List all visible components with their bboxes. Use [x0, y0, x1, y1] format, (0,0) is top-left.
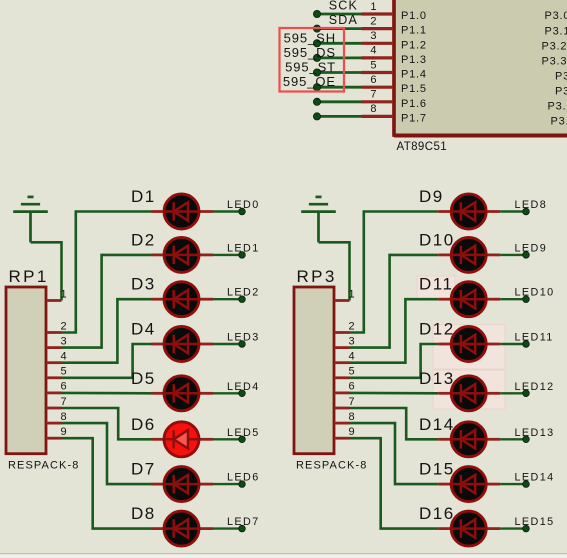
wire RP pin 8 to LED row 7 [62, 423, 152, 484]
junction dot net LED6 [239, 481, 246, 488]
LED D12 right pin stub [486, 343, 501, 346]
LED D14 right pin stub [486, 438, 501, 441]
svg-text:RP1: RP1 [9, 267, 49, 286]
junction dot pin 6 wire [313, 84, 320, 91]
wire D5 to net label LED4 [213, 392, 242, 394]
svg-text:D13: D13 [419, 369, 455, 388]
LED D7 body [164, 467, 199, 502]
wire D3 to net label LED2 [213, 298, 242, 300]
wire RP pin 4 to LED row 3 [62, 299, 152, 363]
microcontroller U1 AT89C51 body [392, 0, 567, 137]
LED D5 left pin stub [151, 392, 165, 395]
wire RP pin 9 to LED row 8 [62, 438, 152, 528]
U1 pin 7 stub (P1.6) [362, 100, 393, 103]
U1 pin 6 stub (P1.5) [362, 86, 393, 89]
svg-text:D7: D7 [131, 460, 156, 479]
LED D1 body [164, 194, 199, 229]
svg-text:LED12: LED12 [515, 381, 555, 393]
U1 pin 2 stub (P1.1) [362, 27, 393, 30]
svg-text:6: 6 [349, 381, 355, 393]
svg-text:D6: D6 [131, 415, 156, 434]
LED D9 left pin stub [438, 210, 452, 213]
svg-text:D3: D3 [131, 275, 156, 294]
LED D8 left pin stub [151, 527, 165, 530]
svg-text:P3.4/T0: P3.4/T0 [555, 70, 567, 82]
svg-text:P1.5: P1.5 [401, 83, 427, 95]
wire RP pin 6 to LED row 5 [350, 392, 439, 395]
LED D5 right pin stub [199, 392, 214, 395]
LED D12 left pin stub [438, 343, 452, 346]
wire D16 to net label LED15 [500, 527, 526, 529]
svg-text:D14: D14 [419, 415, 455, 434]
svg-text:LED10: LED10 [515, 287, 555, 299]
wire RP pin 2 to LED row 1 [350, 212, 439, 333]
U1 pin 3 stub (P1.2) [362, 42, 393, 45]
LED D6 body [164, 422, 199, 457]
svg-text:595_OE: 595_OE [283, 74, 336, 89]
wire RP pin 8 to LED row 7 [350, 423, 439, 484]
svg-text:D2: D2 [131, 230, 156, 249]
U1 pin 5 stub (P1.4) [362, 71, 393, 74]
LED D10 body [451, 237, 486, 272]
RP1 pin 4 stub [46, 361, 62, 364]
RP1 pin 5 stub [46, 376, 62, 379]
wire D11 to net label LED10 [500, 298, 526, 300]
junction dot pin 1 wire [313, 10, 320, 17]
junction dot net LED7 [239, 525, 246, 532]
svg-text:2: 2 [61, 320, 67, 332]
svg-text:P3.0/RXD: P3.0/RXD [545, 10, 567, 22]
svg-text:7: 7 [61, 396, 67, 408]
LED D11 body [451, 282, 486, 317]
junction dot pin 7 wire [313, 98, 320, 105]
LED D15 left pin stub [438, 483, 452, 486]
resistor pack RP3 body [294, 287, 334, 454]
svg-text:LED2: LED2 [227, 287, 260, 299]
LED D11 left pin stub [438, 298, 452, 301]
svg-text:P1.1: P1.1 [401, 25, 427, 37]
wire to U1 pin 2 [317, 27, 362, 30]
junction dot net LED1 [239, 252, 246, 259]
svg-text:LED5: LED5 [227, 427, 260, 439]
LED D15 right pin stub [486, 483, 501, 486]
wire RP pin 5 to LED row 4 [62, 344, 152, 378]
wire D1 to net label LED0 [213, 210, 242, 212]
svg-text:D12: D12 [419, 320, 455, 339]
RP3 pin 3 stub [334, 346, 350, 349]
RP3 pin 6 stub [334, 391, 350, 394]
wire D2 to net label LED1 [213, 254, 242, 256]
wire to U1 pin 8 [317, 115, 362, 118]
svg-text:2: 2 [349, 320, 355, 332]
svg-text:595_ST: 595_ST [285, 60, 336, 75]
svg-text:LED9: LED9 [515, 242, 548, 254]
junction dot net LED2 [239, 296, 246, 303]
ground symbol (right) [301, 197, 336, 242]
red selection box around 595_ labels [280, 28, 345, 92]
svg-text:595_SH: 595_SH [284, 30, 336, 45]
junction dot pin 2 wire [313, 25, 320, 32]
svg-text:5: 5 [61, 366, 67, 378]
svg-text:P3.6/WR: P3.6/WR [548, 101, 567, 113]
svg-text:LED1: LED1 [227, 242, 260, 254]
svg-text:9: 9 [349, 426, 355, 438]
svg-text:6: 6 [370, 74, 376, 86]
LED D1 left pin stub [151, 210, 165, 213]
LED D12 body [451, 327, 486, 362]
svg-text:5: 5 [349, 366, 355, 378]
LED D3 left pin stub [151, 298, 165, 301]
wire D4 to net label LED3 [213, 343, 242, 345]
LED D2 right pin stub [199, 253, 214, 256]
svg-text:SCK: SCK [329, 0, 358, 13]
RP3 pin 8 stub [334, 422, 350, 425]
junction dot pin 5 wire [313, 69, 320, 76]
junction dot net LED5 [239, 436, 246, 443]
RP1 pin 7 stub [46, 407, 62, 410]
RP1 pin 9 stub [46, 437, 62, 440]
junction dot net LED8 [523, 208, 530, 215]
resistor pack RP1 body [6, 287, 46, 454]
svg-text:7: 7 [370, 89, 376, 101]
LED D13 left pin stub [438, 392, 452, 395]
wire D6 to net label LED5 [213, 438, 242, 440]
wire D7 to net label LED6 [213, 483, 242, 485]
LED D13 body [451, 376, 486, 411]
RP3 pin 4 stub [334, 361, 350, 364]
LED D9 right pin stub [486, 210, 501, 213]
svg-text:8: 8 [349, 411, 355, 423]
svg-text:LED0: LED0 [227, 199, 260, 211]
wire ground to RP3 pin 1 [319, 242, 350, 300]
LED D4 right pin stub [199, 343, 214, 346]
wire to U1 pin 5 [317, 71, 362, 74]
LED D15 body [451, 467, 486, 502]
RP1 pin 1 stub [46, 299, 62, 302]
LED D1 right pin stub [199, 210, 214, 213]
selection highlight box behind D11 label [417, 276, 455, 299]
RP1 pin 6 stub [46, 391, 62, 394]
wire to U1 pin 7 [317, 100, 362, 103]
RP1 pin 3 stub [46, 346, 62, 349]
LED D3 right pin stub [199, 298, 214, 301]
RP1 pin 8 stub [46, 422, 62, 425]
RP3 pin 2 stub [334, 331, 350, 334]
svg-text:P3.1/TXD: P3.1/TXD [545, 25, 567, 37]
svg-text:LED8: LED8 [515, 199, 548, 211]
svg-text:2: 2 [370, 15, 376, 27]
svg-text:595_DS: 595_DS [284, 45, 336, 60]
svg-text:6: 6 [61, 381, 67, 393]
LED D9 body [451, 194, 486, 229]
LED D3 body [164, 282, 199, 317]
wire to U1 pin 6 [317, 86, 362, 89]
RP3 pin 9 stub [334, 437, 350, 440]
wire D15 to net label LED14 [500, 483, 526, 485]
LED D7 left pin stub [151, 483, 165, 486]
RP3 pin 7 stub [334, 407, 350, 410]
svg-text:RP3: RP3 [297, 267, 337, 286]
LED D2 left pin stub [151, 253, 165, 256]
svg-text:8: 8 [370, 103, 376, 115]
LED D7 right pin stub [199, 483, 214, 486]
junction dot net LED4 [239, 390, 246, 397]
junction dot net LED9 [523, 252, 530, 259]
svg-text:D16: D16 [419, 504, 455, 523]
svg-text:P1.6: P1.6 [401, 98, 427, 110]
LED D10 right pin stub [486, 253, 501, 256]
wire RP pin 6 to LED row 5 [62, 392, 152, 395]
junction dot net LED12 [523, 390, 530, 397]
LED D11 right pin stub [486, 298, 501, 301]
svg-text:P3.2/INT0: P3.2/INT0 [542, 40, 567, 52]
svg-text:D11: D11 [419, 275, 453, 294]
LED D5 body [164, 376, 199, 411]
RP3 pin 5 stub [334, 376, 350, 379]
svg-text:9: 9 [61, 426, 67, 438]
svg-text:P1.2: P1.2 [401, 39, 427, 51]
wire RP pin 5 to LED row 4 [350, 344, 439, 378]
svg-text:P1.7: P1.7 [401, 112, 427, 124]
svg-text:LED14: LED14 [515, 472, 555, 484]
svg-text:RESPACK-8: RESPACK-8 [8, 460, 79, 472]
wire RP pin 7 to LED row 6 [350, 408, 439, 439]
LED D2 body [164, 237, 199, 272]
svg-text:4: 4 [349, 351, 355, 363]
junction dot pin 8 wire [313, 113, 320, 120]
svg-text:3: 3 [349, 335, 355, 347]
wire RP pin 9 to LED row 8 [350, 438, 439, 528]
svg-text:LED15: LED15 [515, 516, 555, 528]
U1 pin 8 stub (P1.7) [362, 115, 393, 118]
junction dot pin 4 wire [313, 54, 320, 61]
svg-text:7: 7 [349, 396, 355, 408]
selection highlight box behind D12 [433, 325, 505, 370]
U1 pin 4 stub (P1.3) [362, 56, 393, 59]
RP1 pin 2 stub [46, 331, 62, 334]
ground symbol (left) [13, 197, 48, 242]
junction dot net LED11 [523, 341, 530, 348]
svg-text:D9: D9 [419, 187, 444, 206]
junction dot net LED13 [523, 436, 530, 443]
selection highlight box behind D13 [433, 370, 505, 409]
svg-text:1: 1 [370, 1, 376, 13]
junction dot net LED3 [239, 341, 246, 348]
junction dot pin 3 wire [313, 40, 320, 47]
wire D14 to net label LED13 [500, 438, 526, 440]
svg-text:P1.0: P1.0 [401, 10, 427, 22]
RP3 pin 1 stub [334, 299, 350, 302]
wire to U1 pin 4 [317, 57, 362, 60]
svg-text:P3.7/RD: P3.7/RD [551, 116, 567, 128]
svg-text:D15: D15 [419, 460, 455, 479]
wire RP pin 7 to LED row 6 [62, 408, 152, 439]
svg-text:RESPACK-8: RESPACK-8 [296, 460, 367, 472]
svg-text:D1: D1 [131, 187, 156, 206]
LED D16 left pin stub [438, 527, 452, 530]
LED D14 body [451, 422, 486, 457]
LED D13 right pin stub [486, 392, 501, 395]
LED D10 left pin stub [438, 253, 452, 256]
svg-text:1: 1 [349, 288, 355, 300]
wire RP pin 3 to LED row 2 [350, 255, 439, 348]
LED D4 body [164, 327, 199, 362]
svg-text:1: 1 [61, 288, 67, 300]
svg-text:P1.3: P1.3 [401, 54, 427, 66]
LED D8 body [164, 511, 199, 546]
junction dot net LED15 [523, 525, 530, 532]
svg-text:LED7: LED7 [227, 516, 260, 528]
svg-text:LED6: LED6 [227, 472, 260, 484]
wire D10 to net label LED9 [500, 254, 526, 256]
wire D8 to net label LED7 [213, 527, 242, 529]
LED D14 left pin stub [438, 438, 452, 441]
svg-text:LED13: LED13 [515, 427, 555, 439]
svg-text:3: 3 [370, 30, 376, 42]
wire D9 to net label LED8 [500, 210, 526, 212]
svg-text:D10: D10 [419, 230, 455, 249]
window edge bottom separator [0, 553, 567, 554]
svg-text:8: 8 [61, 411, 67, 423]
wire to U1 pin 1 [317, 13, 362, 16]
wire RP pin 4 to LED row 3 [350, 299, 439, 363]
svg-text:LED3: LED3 [227, 332, 260, 344]
svg-text:4: 4 [61, 351, 67, 363]
svg-text:P3.3/INT1: P3.3/INT1 [542, 55, 567, 67]
junction dot net LED14 [523, 481, 530, 488]
svg-text:LED4: LED4 [227, 381, 260, 393]
svg-text:D4: D4 [131, 320, 156, 339]
svg-text:LED11: LED11 [515, 332, 554, 344]
wire D12 to net label LED11 [500, 343, 526, 345]
svg-text:5: 5 [370, 59, 376, 71]
wire ground to RP1 pin 1 [31, 242, 62, 300]
U1 pin 1 stub (P1.0) [362, 12, 393, 15]
svg-text:4: 4 [370, 45, 376, 57]
junction dot net LED0 [239, 208, 246, 215]
LED D16 body [451, 511, 486, 546]
wire D13 to net label LED12 [500, 392, 526, 394]
LED D4 left pin stub [151, 343, 165, 346]
LED D8 right pin stub [199, 527, 214, 530]
svg-text:AT89C51: AT89C51 [397, 141, 448, 153]
svg-text:P3.5/T1: P3.5/T1 [555, 86, 567, 98]
LED D6 right pin stub [199, 438, 214, 441]
LED D6 left pin stub [151, 438, 165, 441]
wire RP pin 2 to LED row 1 [62, 212, 152, 333]
wire RP pin 3 to LED row 2 [62, 255, 152, 348]
svg-text:D5: D5 [131, 369, 156, 388]
LED D16 right pin stub [486, 527, 501, 530]
wire to U1 pin 3 [317, 42, 362, 45]
svg-text:D8: D8 [131, 504, 156, 523]
svg-text:P1.4: P1.4 [401, 69, 427, 81]
junction dot net LED10 [523, 296, 530, 303]
svg-text:SDA: SDA [329, 13, 358, 27]
svg-text:3: 3 [61, 335, 67, 347]
